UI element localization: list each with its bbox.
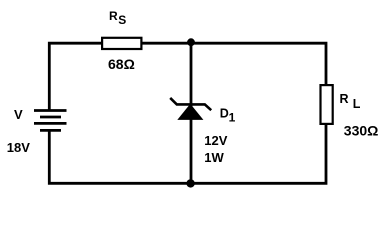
label V [14, 107, 23, 122]
svg-text:V: V [14, 107, 23, 122]
value 330Ω [344, 122, 379, 138]
resistor RL [321, 85, 333, 124]
svg-text:R: R [109, 9, 118, 23]
value 12V [204, 133, 227, 148]
resistor RS [102, 38, 141, 49]
battery V (voltage source) [34, 111, 67, 131]
svg-text:12V: 12V [204, 133, 227, 148]
svg-text:S: S [118, 13, 126, 27]
node junction dot bottom [186, 179, 194, 187]
label RL [340, 92, 361, 111]
svg-text:68Ω: 68Ω [108, 56, 135, 72]
value 18V [7, 140, 30, 155]
value 1W [204, 150, 224, 165]
svg-text:330Ω: 330Ω [344, 122, 379, 138]
label RS [109, 9, 126, 27]
svg-text:1W: 1W [204, 150, 224, 165]
svg-text:L: L [353, 97, 361, 111]
wire outer loop (top, right, bottom, left segments) [49, 43, 326, 183]
label D1 [220, 106, 236, 124]
node junction dot top [187, 38, 195, 46]
svg-text:18V: 18V [7, 140, 30, 155]
zener diode D1 [170, 98, 211, 120]
svg-text:R: R [340, 92, 349, 106]
svg-text:1: 1 [229, 110, 236, 124]
wire middle branch (zener branch) [190, 43, 193, 183]
value 68Ω [108, 56, 135, 72]
svg-text:D: D [220, 106, 229, 120]
